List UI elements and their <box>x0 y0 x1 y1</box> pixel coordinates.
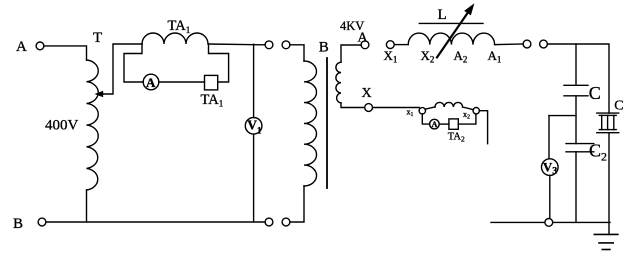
bottom rail right <box>491 221 610 223</box>
terminal (L output right) <box>540 40 548 48</box>
wire ammeter to TA1 box <box>159 81 205 83</box>
terminal x1 of TA2 <box>419 108 425 114</box>
svg-text:A: A <box>16 39 27 55</box>
TA2 secondary winding box <box>449 119 458 129</box>
wire L to output terminal <box>495 43 523 46</box>
svg-text:A: A <box>146 75 156 90</box>
TA1 secondary winding box <box>205 75 218 90</box>
wire X line to TA2 <box>373 107 420 109</box>
test object capacitor C (stack) top plate <box>597 112 619 114</box>
transformer B primary winding <box>304 61 317 186</box>
terminal B <box>38 218 46 226</box>
capacitor C2 (divider lower) <box>566 143 594 145</box>
wire TA1 box to loop right <box>209 44 229 82</box>
wire bottom rail left <box>46 221 265 223</box>
wire V1 branch top <box>253 44 255 117</box>
wire secondary bottom to terminal X <box>341 103 365 108</box>
wire x2 down (return stub) <box>479 111 487 144</box>
svg-text:T: T <box>93 30 102 46</box>
wire secondary top to terminal A <box>341 45 361 62</box>
wire stack capacitor to ground <box>608 133 610 235</box>
svg-text:B: B <box>319 40 329 56</box>
terminal x2 of TA2 <box>473 108 479 114</box>
terminal (LV link top left) <box>265 41 273 49</box>
voltmeter V3 <box>542 159 559 176</box>
wire to transformer B primary top <box>290 45 304 61</box>
wire V3 to bottom rail <box>549 175 551 218</box>
wire junction to V3 branch <box>549 115 576 117</box>
capacitor C (divider upper) <box>564 84 588 86</box>
terminal A (HV output) <box>361 41 369 49</box>
tap arrow of autotransformer <box>95 91 104 97</box>
terminal (L output left) <box>523 40 531 48</box>
terminal (LV link bottom right) <box>282 218 290 226</box>
svg-text:B: B <box>13 216 23 232</box>
wire branch to capacitor C <box>575 44 577 85</box>
terminal (LV link bottom left) <box>265 218 273 226</box>
ammeter A (TA2 secondary) <box>430 119 440 129</box>
wire C to C2 <box>575 96 577 144</box>
wire top right <box>547 44 609 113</box>
wire C2 to bottom rail <box>575 152 577 223</box>
terminal X (HV return) <box>365 104 373 112</box>
terminal (LV link top right) <box>282 41 290 49</box>
stack capacitor bottom plate <box>597 132 619 134</box>
wire TA1 secondary loop left <box>124 44 143 82</box>
wire autotransformer bottom to rail <box>86 190 88 222</box>
adjustable inductor L winding <box>408 33 494 45</box>
adjustment arrow of inductor L <box>437 12 469 58</box>
stack capacitor inner top caps <box>599 114 604 116</box>
wire TA1 to terminal <box>209 43 266 46</box>
svg-text:A: A <box>432 120 438 129</box>
wire V1 to bottom rail <box>253 134 255 222</box>
current transformer TA2 primary coil <box>435 102 463 107</box>
terminal (bottom rail junction) <box>545 219 553 227</box>
voltmeter V3 branch wire <box>548 116 550 159</box>
wire TA2 secondary loop left <box>422 114 429 124</box>
stack capacitor inner bottom caps <box>599 129 604 131</box>
svg-text:C: C <box>614 98 623 113</box>
terminal A <box>36 42 44 50</box>
autotransformer T winding <box>87 60 99 190</box>
wire tap to TA1 primary <box>101 44 142 94</box>
wire ammeter to TA2 box <box>439 123 449 125</box>
terminal X1 of inductor L <box>386 41 394 49</box>
ammeter A (TA1 secondary) <box>143 74 159 90</box>
svg-text:L: L <box>438 7 447 23</box>
svg-text:400V: 400V <box>45 118 79 134</box>
wire transformer B primary bottom <box>290 186 304 222</box>
ground <box>594 233 618 235</box>
svg-text:X: X <box>362 86 372 101</box>
transformer B core <box>326 58 328 188</box>
wire X1 to L coil <box>394 44 408 46</box>
stack capacitor inner columns <box>601 115 603 129</box>
wire A to autotransformer top <box>44 46 87 60</box>
wire to TA2 coil <box>425 107 435 109</box>
voltmeter V1 <box>245 118 262 135</box>
svg-text:A: A <box>358 31 369 46</box>
wire TA2 box to loop right <box>458 114 476 124</box>
underline of label L <box>419 22 483 24</box>
svg-text:C: C <box>589 83 601 103</box>
current transformer TA1 primary coil <box>142 33 208 44</box>
wire TA2 coil to x2 <box>463 107 474 110</box>
transformer B secondary winding <box>336 62 341 103</box>
